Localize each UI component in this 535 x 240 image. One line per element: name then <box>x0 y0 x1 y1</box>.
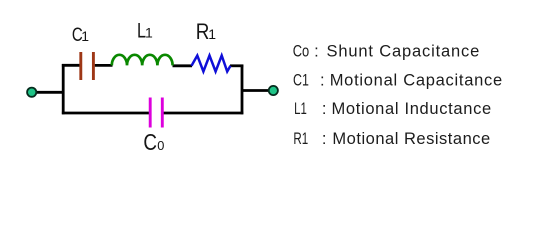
svg-text:0: 0 <box>157 138 164 153</box>
svg-text::: : <box>322 100 327 118</box>
svg-text:R1: R1 <box>293 130 308 148</box>
svg-text:1: 1 <box>81 28 89 44</box>
svg-text:1: 1 <box>145 25 153 41</box>
svg-text:Motional Inductance: Motional Inductance <box>332 100 492 118</box>
svg-text:Co: Co <box>293 42 310 60</box>
svg-text::: : <box>322 130 327 148</box>
svg-text:Motional Capacitance: Motional Capacitance <box>330 71 503 89</box>
svg-text:Motional Resistance: Motional Resistance <box>332 130 490 148</box>
svg-text:C1: C1 <box>293 71 309 89</box>
svg-text::: : <box>314 42 319 60</box>
svg-text:L1: L1 <box>294 100 307 118</box>
svg-text:1: 1 <box>208 26 216 42</box>
svg-text:Shunt Capacitance: Shunt Capacitance <box>327 42 480 60</box>
svg-text::: : <box>320 71 325 89</box>
svg-text:C: C <box>143 130 157 155</box>
